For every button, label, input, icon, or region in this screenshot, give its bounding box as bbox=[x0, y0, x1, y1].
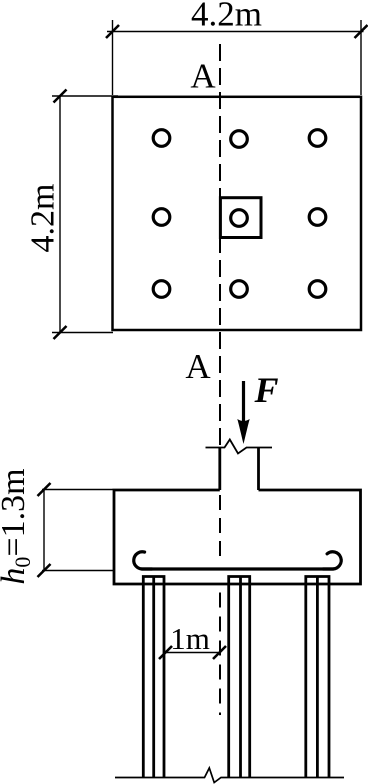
section centerline (dashed, inside cap) bbox=[219, 495, 221, 560]
h0 dimension line bbox=[43, 490, 45, 571]
svg-text:A: A bbox=[190, 57, 216, 96]
pile cap outline (plan view) bbox=[113, 97, 362, 330]
1m dimension tick (left) bbox=[159, 646, 172, 659]
top dimension tick (left) bbox=[106, 25, 119, 38]
column left edge (section) bbox=[218, 448, 221, 491]
top dimension tick (right) bbox=[355, 25, 368, 38]
section centerline (dashed, below cap) bbox=[219, 593, 221, 716]
pile circle row2 col2 (under column) bbox=[231, 210, 248, 227]
force arrowhead bbox=[237, 419, 249, 444]
pile right (section) rebar line bbox=[316, 577, 319, 778]
left dimension line bbox=[59, 96, 61, 333]
rebar bar bbox=[141, 567, 334, 570]
pile circle row2 col1 bbox=[153, 209, 170, 226]
svg-text:F: F bbox=[254, 370, 279, 410]
left dimension extension line (bottom) bbox=[52, 332, 113, 334]
pile circle row1 col2 bbox=[231, 131, 248, 148]
pile circle row3 col1 bbox=[153, 281, 170, 298]
pile middle (section) outline bbox=[229, 577, 250, 778]
column outline (plan view) bbox=[220, 198, 261, 238]
column break line with zigzag bbox=[206, 440, 273, 454]
1m dimension tick (right) bbox=[213, 646, 226, 659]
left dimension tick (bottom) bbox=[54, 326, 67, 339]
column right edge (section) bbox=[257, 448, 260, 491]
pile cap outline (section view) bbox=[114, 490, 361, 584]
svg-text:4.2m: 4.2m bbox=[25, 184, 62, 253]
top dimension extension line (right) bbox=[360, 20, 362, 95]
left dimension tick (top) bbox=[54, 90, 67, 103]
pile left (section) rebar line bbox=[152, 577, 155, 778]
top dimension line bbox=[107, 31, 364, 33]
svg-text:A: A bbox=[185, 347, 211, 386]
pile circle row3 col3 bbox=[309, 281, 326, 298]
pile middle (section) rebar line bbox=[239, 577, 242, 778]
left dimension extension line (top) bbox=[52, 95, 118, 97]
pile circle row1 col1 bbox=[153, 130, 170, 147]
pile left (section) outline bbox=[143, 577, 164, 778]
rebar hook (left) bbox=[134, 552, 152, 569]
force arrow shaft bbox=[242, 381, 245, 428]
section centerline A-A (dashed, upper) bbox=[219, 44, 221, 447]
ground break line with zigzag (bottom) bbox=[115, 768, 344, 783]
h0 dimension tick (top) bbox=[38, 483, 51, 496]
pile circle row3 col2 bbox=[231, 281, 248, 298]
pile circle row1 col3 bbox=[309, 130, 326, 147]
h0 dimension extension line (top) bbox=[42, 489, 113, 491]
svg-text:4.2m: 4.2m bbox=[191, 0, 262, 34]
h0 dimension extension line (bottom) bbox=[42, 570, 113, 572]
h0 dimension tick (bottom) bbox=[38, 564, 51, 577]
rebar hook (right) bbox=[323, 552, 341, 569]
pile right (section) outline bbox=[306, 577, 329, 778]
pile circle row2 col3 bbox=[309, 209, 326, 226]
svg-text:1m: 1m bbox=[170, 621, 210, 656]
1m dimension line bbox=[166, 652, 220, 654]
top dimension extension line (left) bbox=[112, 20, 114, 95]
